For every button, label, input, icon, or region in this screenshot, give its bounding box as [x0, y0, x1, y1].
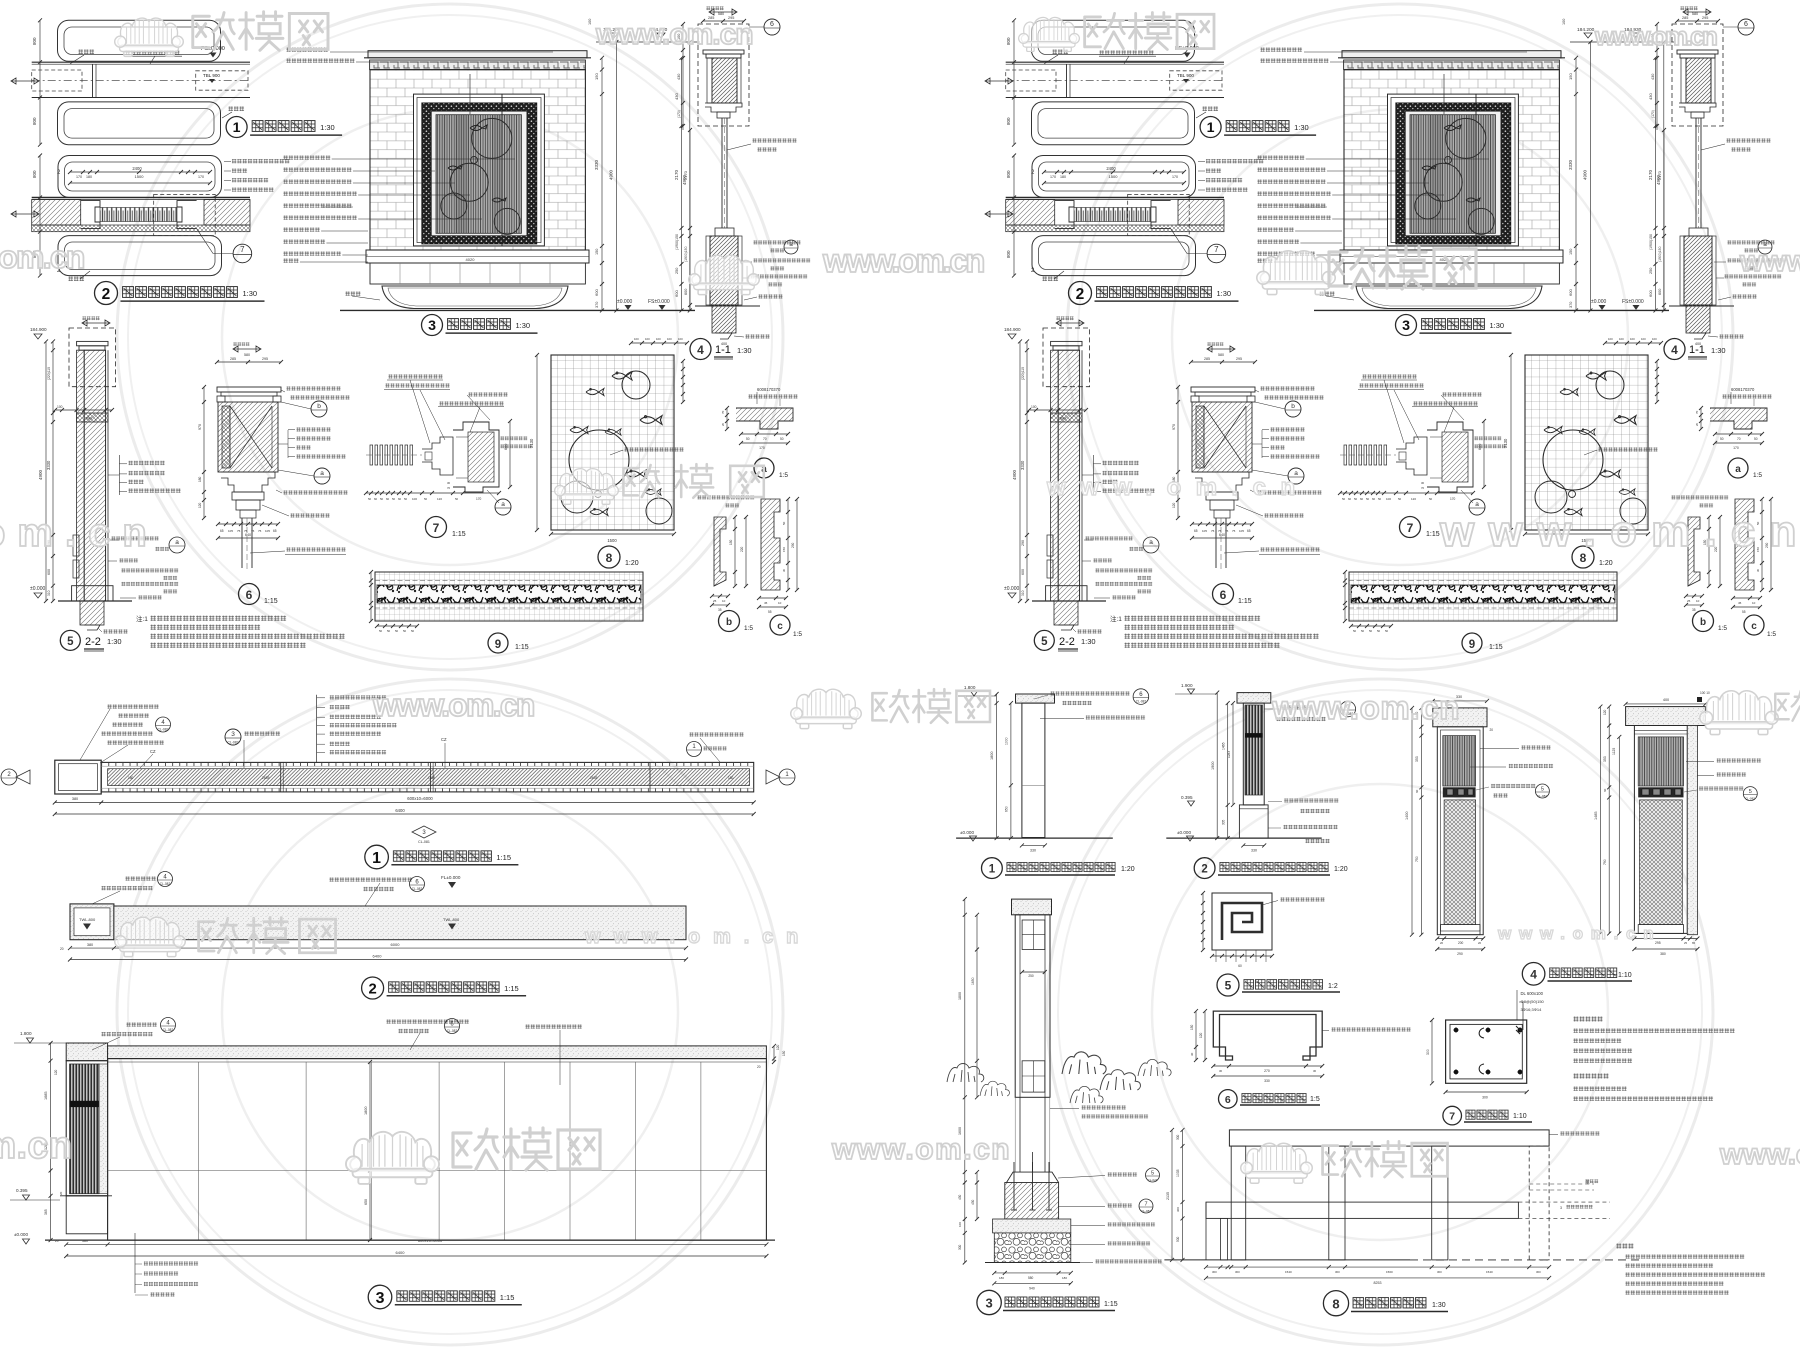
lamp B dims	[1626, 703, 1706, 705]
svg-text:30: 30	[447, 481, 451, 485]
svg-text:100: 100	[412, 497, 417, 501]
detail 7 comb of fins	[370, 445, 373, 465]
svg-text:65: 65	[220, 529, 224, 533]
greek key relief square	[1212, 893, 1272, 950]
svg-text:CL-082: CL-082	[1537, 794, 1547, 798]
svg-text:20: 20	[60, 947, 64, 951]
svg-text:5: 5	[67, 636, 74, 648]
svg-text:60: 60	[374, 497, 378, 501]
svg-text:600: 600	[504, 444, 508, 450]
svg-text:6000: 6000	[391, 942, 401, 947]
plan 1 lower rounded outline	[58, 102, 221, 145]
lamp A body	[1437, 727, 1483, 935]
svg-text:1:5: 1:5	[793, 631, 802, 638]
svg-text:50: 50	[380, 497, 384, 501]
steel right dashed column	[1529, 1146, 1549, 1260]
detail 6 pole	[241, 518, 243, 568]
svg-text:60: 60	[1238, 964, 1242, 968]
svg-text:184.900: 184.900	[30, 327, 47, 332]
section pole lower	[1019, 1097, 1021, 1172]
svg-text:1:10: 1:10	[1618, 972, 1632, 979]
section 2-2 top arrows + dashed box	[82, 320, 110, 326]
svg-text:800: 800	[32, 37, 37, 45]
svg-text:100: 100	[588, 19, 592, 25]
svg-text:600x10=6000: 600x10=6000	[407, 796, 433, 801]
svg-text:3330: 3330	[594, 159, 599, 170]
svg-text:注:1: 注:1	[136, 614, 148, 623]
C-wall elevation bottom-left leaders	[134, 1233, 136, 1293]
top-right quadrant (duplicate of top-left)	[985, 6, 1785, 653]
svg-text:www.om.cn: www.om.cn	[1271, 689, 1462, 726]
svg-text:0.395: 0.395	[16, 1188, 28, 1193]
svg-text:3: 3	[428, 318, 436, 334]
svg-text:CL-082: CL-082	[1745, 797, 1755, 801]
svg-text:380: 380	[72, 797, 78, 801]
svg-text:CL-082: CL-082	[1136, 700, 1147, 704]
svg-text:20: 20	[1478, 941, 1482, 945]
svg-text:580: 580	[1028, 1276, 1034, 1280]
svg-text:300: 300	[1176, 1207, 1180, 1212]
side elev 1 dims	[996, 694, 998, 838]
svg-text:50: 50	[424, 497, 428, 501]
svg-text:430: 430	[958, 1194, 962, 1200]
svg-text:4900: 4900	[609, 169, 614, 180]
svg-text:4: 4	[1530, 968, 1537, 982]
svg-text:50: 50	[455, 497, 459, 501]
section dims left	[964, 899, 966, 1262]
svg-text:600: 600	[594, 289, 599, 296]
svg-text:1900: 1900	[1211, 762, 1215, 770]
svg-text:270: 270	[1264, 1069, 1270, 1073]
elevation leaders left	[283, 155, 331, 160]
C-wall elevation bottom dims	[66, 1243, 766, 1245]
svg-text:www.om.cn: www.om.cn	[0, 511, 150, 555]
svg-text:30: 30	[1190, 1052, 1194, 1056]
svg-text:640: 640	[245, 533, 251, 537]
section 2-2 right leaders	[118, 455, 120, 495]
svg-text:1:2: 1:2	[1328, 983, 1338, 990]
plan view 2 upper rounded outline	[58, 156, 222, 198]
svg-text:1:15: 1:15	[496, 853, 511, 862]
pillar 1-1 top arrows	[709, 9, 737, 15]
svg-text:www.om.cn: www.om.cn	[1497, 924, 1655, 943]
svg-text:35: 35	[718, 608, 722, 612]
pillar right leaders	[752, 138, 797, 143]
svg-text:1800: 1800	[990, 752, 994, 760]
svg-text:7: 7	[433, 521, 440, 535]
svg-text:305: 305	[1221, 819, 1225, 825]
section concrete pad	[993, 1219, 1071, 1233]
svg-text:430: 430	[677, 74, 681, 80]
svg-text:10: 10	[722, 599, 726, 603]
svg-text:2-2: 2-2	[85, 636, 101, 648]
svg-text:20: 20	[1490, 728, 1494, 732]
svg-text:(170): (170)	[677, 110, 681, 118]
svg-text:65: 65	[273, 529, 277, 533]
svg-text:1.800: 1.800	[20, 1031, 32, 1036]
plan 2 wall band with hatch	[32, 197, 250, 199]
stone basin	[382, 286, 568, 309]
section pebble layer	[994, 1233, 1071, 1263]
svg-text:790: 790	[1603, 859, 1607, 865]
steel top-right leader	[1560, 1131, 1600, 1136]
label side2	[1194, 858, 1215, 879]
detail 6 cap plates	[217, 387, 281, 392]
svg-text:30: 30	[1313, 1069, 1317, 1073]
svg-text:1800: 1800	[364, 1107, 368, 1115]
label 2	[95, 282, 118, 305]
label C-elev 3	[368, 1285, 392, 1309]
C-wall elevation main wall	[108, 1059, 767, 1241]
svg-text:300: 300	[1426, 1049, 1430, 1055]
svg-text:75: 75	[258, 529, 262, 533]
label section 3	[977, 1290, 1001, 1314]
svg-text:CZ: CZ	[441, 737, 447, 742]
svg-text:CL-082: CL-082	[157, 728, 168, 732]
svg-text:5: 5	[1749, 789, 1752, 795]
svg-text:TBL 900: TBL 900	[203, 73, 220, 78]
label 5 (2-2)	[60, 630, 80, 650]
svg-text:1400: 1400	[1405, 812, 1409, 820]
svg-text:300: 300	[1235, 1270, 1240, 1274]
svg-text:1-1: 1-1	[715, 344, 731, 356]
svg-text:1500: 1500	[607, 538, 617, 543]
svg-text:250: 250	[1028, 974, 1034, 978]
svg-text:330: 330	[1251, 849, 1257, 853]
detail 7 bottom dims	[366, 492, 499, 494]
svg-text:75: 75	[237, 529, 241, 533]
svg-text:180: 180	[198, 476, 202, 482]
svg-text:1:15: 1:15	[452, 531, 466, 538]
svg-text:CL-082: CL-082	[163, 1028, 174, 1032]
side elev 2 grille column	[1243, 703, 1264, 805]
svg-text:150: 150	[594, 73, 599, 80]
steel notes block	[1616, 1243, 1634, 1249]
svg-text:(1900)150: (1900)150	[675, 234, 679, 250]
svg-text:(1900)150: (1900)150	[684, 246, 688, 262]
elevation brick wall	[368, 51, 587, 58]
svg-text:200: 200	[1458, 941, 1464, 945]
detail 8 circles	[569, 430, 629, 490]
svg-text:310: 310	[47, 590, 51, 596]
svg-text:1:20: 1:20	[1334, 866, 1348, 873]
svg-text:1540: 1540	[1285, 1270, 1292, 1274]
svg-text:70: 70	[447, 486, 451, 490]
lamp B body	[1634, 726, 1687, 934]
svg-text:20: 20	[721, 422, 725, 426]
section 2-2 cap	[77, 341, 108, 345]
section 2-2 lower joints	[73, 535, 79, 556]
svg-text:b: b	[726, 617, 732, 628]
svg-text:CL-024: CL-024	[1148, 1178, 1158, 1182]
lamp B leaders	[1716, 758, 1761, 763]
C-wall top plan strip	[114, 906, 686, 940]
C-wall plan leader bundle center	[316, 695, 318, 763]
svg-text:20: 20	[59, 1191, 63, 1195]
frieze 9 dims	[370, 572, 372, 621]
svg-text:150: 150	[595, 249, 599, 255]
section 2-2 joint band	[77, 413, 108, 422]
svg-text:(220)110: (220)110	[47, 367, 51, 380]
svg-text:1:10: 1:10	[1513, 1113, 1527, 1120]
C-wall plan top-left leaders	[107, 704, 159, 709]
label steel 8	[1323, 1291, 1348, 1316]
label C-top 2	[362, 977, 384, 999]
svg-text:180: 180	[999, 1276, 1004, 1280]
svg-text:150: 150	[729, 539, 733, 545]
section footing hatched	[1005, 1183, 1059, 1220]
C-wall plan: left end box	[55, 760, 101, 794]
svg-text:4: 4	[697, 343, 704, 357]
svg-text:1:20: 1:20	[1121, 866, 1135, 873]
panel circles carp motif	[472, 118, 512, 158]
section 2-2 base and ground	[72, 586, 113, 601]
plan2 leader notes right	[232, 159, 290, 164]
svg-text:a: a	[501, 501, 505, 508]
side elev 2 dims	[1216, 693, 1218, 839]
svg-text:250: 250	[675, 268, 679, 274]
svg-text:170: 170	[76, 175, 82, 179]
svg-text:6400: 6400	[395, 808, 405, 813]
detail 6 lower brackets	[221, 472, 275, 492]
detail b molding	[697, 495, 755, 500]
svg-text:75: 75	[251, 529, 255, 533]
svg-text:4020: 4020	[466, 257, 476, 262]
plan 2 lower rounded outline	[58, 236, 222, 276]
C-wall plan joint marks	[280, 762, 282, 792]
plan view 1 upper rounded wall outline	[58, 20, 221, 61]
svg-text:1:15: 1:15	[515, 644, 529, 651]
svg-text:www.om.cn: www.om.cn	[372, 687, 538, 723]
svg-text:1650: 1650	[971, 977, 975, 985]
svg-text:100: 100	[645, 337, 650, 341]
C-wall section inner I-beams	[1022, 920, 1045, 950]
svg-text:1:30: 1:30	[516, 321, 531, 330]
svg-text:120: 120	[198, 502, 202, 508]
watermark mid page	[791, 689, 862, 728]
C-wall top plan leaders	[125, 876, 156, 881]
svg-text:600: 600	[47, 569, 51, 575]
plan 2 internal dims	[70, 171, 210, 173]
svg-text:120: 120	[1603, 709, 1607, 715]
svg-text:400: 400	[1663, 698, 1669, 702]
C-wall plan mid bubble 3	[225, 729, 241, 745]
svg-text:50: 50	[387, 629, 391, 633]
svg-text:750: 750	[1415, 856, 1419, 862]
svg-text:1800: 1800	[958, 992, 962, 1000]
svg-text:4900: 4900	[38, 469, 43, 480]
label 7	[426, 517, 447, 538]
svg-text:180: 180	[728, 776, 734, 780]
svg-text:3: 3	[231, 731, 235, 738]
svg-text:50: 50	[403, 629, 407, 633]
svg-text:50: 50	[404, 497, 408, 501]
label 4 (1-1)	[690, 339, 711, 360]
section base plate	[1007, 1172, 1059, 1182]
svg-text:940: 940	[1029, 1287, 1035, 1291]
foundation notes text block	[1573, 1016, 1603, 1022]
label lamp 4	[1522, 963, 1545, 986]
svg-text:170: 170	[476, 497, 482, 501]
elevation ornate panel	[414, 94, 545, 246]
svg-text:20: 20	[55, 1239, 59, 1243]
frieze 9 banded strip	[375, 572, 643, 621]
detail 7 embedded text	[500, 436, 528, 441]
svg-text:CL-082: CL-082	[1141, 1209, 1151, 1213]
svg-text:1:15: 1:15	[1104, 1301, 1118, 1308]
svg-text:www.om.cn: www.om.cn	[831, 1133, 1012, 1166]
svg-text:2: 2	[368, 982, 376, 998]
C-wall ground line	[45, 1239, 775, 1241]
svg-text:1:5: 1:5	[744, 625, 753, 632]
elevation base bands	[366, 250, 589, 263]
svg-text:1:30: 1:30	[243, 289, 258, 298]
section bubble 7 leader	[233, 244, 252, 263]
svg-text:300: 300	[958, 1244, 962, 1250]
svg-text:20: 20	[757, 1065, 761, 1069]
svg-text:100 10: 100 10	[1700, 691, 1710, 695]
svg-text:50: 50	[411, 629, 415, 633]
svg-text:±0.000: ±0.000	[30, 586, 45, 592]
svg-text:CL-081: CL-081	[418, 840, 430, 844]
svg-text:www.om.cn: www.om.cn	[1739, 245, 1800, 278]
svg-text:www.om.cn: www.om.cn	[595, 18, 756, 51]
svg-text:120: 120	[437, 497, 442, 501]
svg-text:295: 295	[262, 357, 268, 361]
svg-text:6400: 6400	[396, 1250, 406, 1255]
svg-text:8253: 8253	[1374, 1281, 1382, 1285]
svg-text:www.om.cn: www.om.cn	[1719, 1138, 1800, 1171]
svg-text:CL-082: CL-082	[412, 887, 423, 891]
detail 7 bubble a	[495, 499, 511, 515]
svg-text:1465: 1465	[1221, 742, 1225, 750]
svg-text:1:30: 1:30	[1432, 1302, 1446, 1309]
svg-text:50: 50	[395, 629, 399, 633]
svg-text:50: 50	[780, 437, 784, 441]
label 6	[239, 584, 260, 605]
pillar dims left	[682, 24, 684, 130]
section plants scribble	[947, 1064, 984, 1083]
svg-text:800: 800	[32, 117, 37, 125]
svg-text:55: 55	[768, 610, 772, 614]
svg-text:120: 120	[1199, 1032, 1203, 1038]
svg-text:1500: 1500	[135, 174, 145, 179]
svg-text:100: 100	[634, 337, 639, 341]
svg-text:2: 2	[1201, 864, 1207, 876]
lamp B cap	[1626, 707, 1706, 726]
svg-text:CL-082: CL-082	[160, 882, 171, 886]
svg-text:70: 70	[721, 410, 725, 414]
plan 1 wall band	[32, 61, 250, 63]
svg-text:1485: 1485	[1594, 812, 1598, 820]
svg-text:1: 1	[233, 120, 241, 136]
label 1	[226, 117, 247, 138]
svg-text:7: 7	[240, 245, 245, 254]
svg-text:6008170370: 6008170370	[757, 387, 781, 392]
svg-text:60: 60	[1603, 788, 1607, 792]
svg-text:285: 285	[230, 357, 236, 361]
svg-text:Φ8@(50)150: Φ8@(50)150	[1521, 999, 1545, 1004]
svg-text:30: 30	[782, 568, 786, 572]
svg-text:25: 25	[1684, 941, 1688, 945]
svg-text:330: 330	[1264, 1079, 1270, 1083]
label DL 7	[1443, 1106, 1462, 1125]
C-wall side elev 1 column	[1016, 694, 1055, 703]
detail 6 leaders	[286, 386, 341, 391]
svg-text:1:15: 1:15	[264, 598, 278, 605]
plan 1 left dimension	[39, 20, 41, 144]
plan 2 center stone connector	[81, 201, 100, 229]
svg-text:±0.000: ±0.000	[14, 1232, 28, 1237]
svg-text:5: 5	[1225, 979, 1232, 993]
svg-text:1:20: 1:20	[625, 560, 639, 567]
svg-text:650: 650	[1005, 806, 1009, 812]
panel tonal bands and witness lines	[455, 115, 469, 234]
side elev 2 leaders	[1281, 705, 1311, 710]
svg-text:100: 100	[656, 337, 661, 341]
svg-text:±0.000: ±0.000	[617, 299, 632, 305]
svg-text:5: 5	[1541, 787, 1544, 793]
svg-text:2130: 2130	[529, 438, 534, 448]
svg-text:970: 970	[198, 424, 202, 430]
frieze 9 scroll ornament band	[377, 585, 641, 603]
svg-text:1125: 1125	[1612, 748, 1616, 755]
svg-text:600: 600	[684, 289, 688, 295]
svg-text:www.om.cn: www.om.cn	[0, 1125, 75, 1167]
svg-text:295: 295	[1655, 941, 1661, 945]
steel top beam	[1229, 1130, 1549, 1146]
lamp A cap	[1433, 708, 1487, 727]
detail 7 leaders top	[388, 374, 443, 379]
svg-text:2170: 2170	[683, 170, 688, 180]
svg-text:300: 300	[1437, 1270, 1442, 1274]
svg-text:580: 580	[244, 353, 250, 357]
C-wall section column	[1015, 915, 1050, 1098]
C-wall plan: long strip	[101, 762, 754, 792]
svg-text:www.om.cn: www.om.cn	[1594, 21, 1720, 51]
label side1	[982, 858, 1003, 879]
section dims bottom	[994, 1272, 1071, 1274]
svg-text:290: 290	[791, 542, 795, 548]
C-wall plan right leaders	[689, 732, 744, 737]
svg-text:150: 150	[1190, 1024, 1194, 1030]
svg-text:6: 6	[246, 588, 253, 602]
svg-text:DL 600x100: DL 600x100	[1521, 991, 1544, 996]
svg-text:1000: 1000	[1005, 737, 1009, 745]
side elev 2 pedestal	[1239, 805, 1268, 838]
detail 8 dims	[536, 355, 538, 530]
detail 7 right dim	[509, 421, 511, 487]
svg-text:100: 100	[678, 337, 683, 341]
svg-text:6: 6	[1225, 1094, 1231, 1106]
svg-text:2655: 2655	[590, 776, 598, 780]
svg-text:1560: 1560	[1386, 1270, 1393, 1274]
svg-text:3Φ16;3Φ14: 3Φ16;3Φ14	[1521, 1007, 1543, 1012]
svg-text:100: 100	[958, 1222, 962, 1227]
svg-text:0.395: 0.395	[1181, 795, 1193, 800]
label 9	[488, 633, 508, 653]
svg-text:170: 170	[759, 446, 765, 450]
svg-text:220: 220	[740, 546, 744, 552]
C-wall elevation coping	[66, 1043, 107, 1061]
svg-text:3330: 3330	[46, 460, 51, 470]
steel mid beam	[1206, 1202, 1518, 1218]
C-wall elevation feature column	[66, 1061, 107, 1196]
svg-text:7: 7	[1144, 1202, 1147, 1208]
svg-text:1283: 1283	[1227, 751, 1231, 758]
detail c molding	[761, 499, 780, 590]
svg-text:TWL.800: TWL.800	[79, 917, 96, 922]
